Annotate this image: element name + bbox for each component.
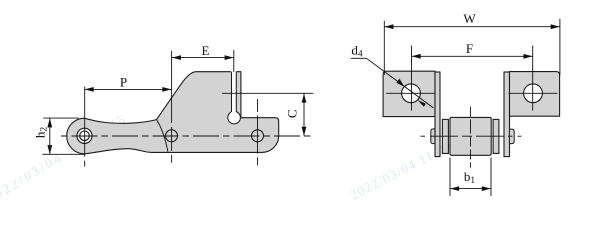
centerline hole 2 vertical / P-E extension [171,51,173,166]
slot opening (white) [231,71,236,116]
left washer strip [442,119,448,153]
svg-text:E: E [202,43,210,58]
h2 top extension line [43,117,79,119]
right hole crosshair horizontal [509,92,558,94]
slot right wall line [235,72,237,112]
right hole in wing [524,84,543,103]
left pin end [431,129,435,144]
b1 right extension line [490,158,492,197]
roller vertical centerline [470,107,472,168]
svg-text:F: F [466,41,473,56]
F dimension line [412,55,533,57]
roller [450,117,491,155]
left hole vertical centerline / F extension [411,46,413,111]
svg-text:W: W [463,11,476,26]
pin end hole 3 [252,130,264,142]
pin axis centerline [421,135,522,137]
centerline hole 3 vertical [257,99,259,166]
W left extension line [383,21,385,75]
d4 arrowhead lower-right pointing to hole [418,100,426,107]
d4 leader diagonal [367,58,434,108]
left hole in wing [402,84,421,103]
E right extension line [233,50,235,72]
d4 arrowhead upper-left pointing to hole [396,79,404,87]
C top extension line [222,92,313,94]
W dimension line [385,26,560,28]
keyhole circle at slot bottom [228,111,241,124]
b1 left extension line [449,158,451,197]
svg-text:d4: d4 [351,43,363,60]
slot left wall line [231,72,233,112]
link plate with attachment plate (silhouette) [67,72,279,154]
b1 dimension line [450,188,491,190]
svg-text:h2: h2 [33,127,50,139]
h2 dimension line [49,118,51,154]
left hole crosshair horizontal [386,92,435,94]
centerline hole 1 vertical / P left extension [84,87,86,167]
d4 leader underline [351,57,367,59]
right leg [504,72,510,157]
bush ring of hole 1 [77,128,92,143]
left leg (bent-down part) [435,72,440,157]
C dimension line [303,94,305,136]
P dimension line [85,88,172,90]
svg-text:b1: b1 [464,169,476,186]
h2 bottom extension line [42,153,84,155]
right pin end [509,129,514,144]
pin end hole 2 [166,130,178,142]
W right extension line [559,19,561,75]
link plate right end edge (under attachment) [157,120,169,153]
svg-text:C: C [285,109,300,118]
right washer strip [493,119,499,153]
svg-text:P: P [120,75,127,90]
right hole vertical centerline / F extension [532,46,534,111]
left wing plate [383,71,435,116]
right wing plate [510,72,560,117]
E dimension line [172,57,234,59]
chain centerline horizontal [61,135,311,137]
pin hole 1 [80,131,90,141]
